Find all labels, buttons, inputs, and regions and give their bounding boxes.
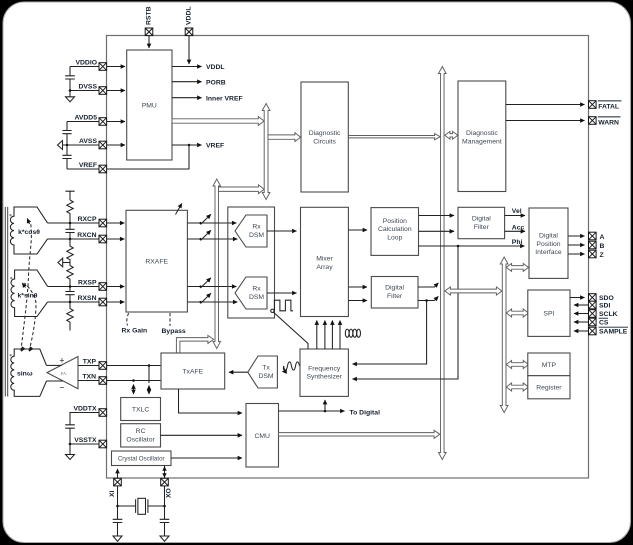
wire Phi branch down to synthesizer <box>353 246 459 379</box>
wire VSSTX <box>70 443 99 445</box>
wire TxAFE to CMU <box>179 389 243 413</box>
svg-text:Interface: Interface <box>535 249 562 256</box>
wire Acc <box>505 230 525 232</box>
variable arrow out1 <box>199 214 210 224</box>
sine squiggle synth to Tx DSM <box>282 362 299 372</box>
arrow RXCN into RXAFE <box>121 238 125 240</box>
svg-text:+: + <box>59 355 64 365</box>
bus stub bus2 to Diagnostic Management <box>445 131 458 139</box>
wire PORB out <box>172 81 202 83</box>
capacitor XO load <box>160 519 170 536</box>
svg-text:*: * <box>9 354 12 360</box>
svg-text:MTP: MTP <box>542 362 557 369</box>
wire TXP to TXLC bidirectional <box>148 366 150 384</box>
capacitor VDDTX-VSSTX <box>65 425 75 444</box>
svg-text:DSM: DSM <box>258 373 273 380</box>
svg-text:B: B <box>600 243 605 250</box>
bus stub busC to Register <box>506 383 528 391</box>
svg-text:Acc: Acc <box>512 225 525 232</box>
Register block <box>528 376 570 399</box>
pad A <box>589 232 597 240</box>
pad AVSS <box>99 141 107 149</box>
wire Mixer to Digital Filter lower 1 <box>348 286 367 288</box>
svg-text:Phi: Phi <box>512 239 523 246</box>
ground XO <box>160 536 169 541</box>
bus bidir busB to busC <box>445 287 502 295</box>
wire VREF pad <box>67 146 189 169</box>
wire B <box>568 244 585 246</box>
TxAFE block <box>161 353 225 389</box>
junction Phi branch <box>457 245 460 248</box>
wire VDDIO <box>70 66 121 68</box>
svg-text:CS: CS <box>599 320 609 327</box>
svg-text:*: * <box>10 277 13 283</box>
wire VREF out <box>172 144 202 146</box>
TXLC block <box>121 398 161 421</box>
svg-text:VDDIO: VDDIO <box>75 59 97 66</box>
resistor RX divider R4 <box>67 302 73 331</box>
svg-text:Rx: Rx <box>252 286 261 293</box>
svg-text:PORB: PORB <box>206 79 226 86</box>
wire SDO <box>570 297 585 299</box>
pad VDDIO <box>99 63 107 71</box>
wire TXP <box>78 365 161 367</box>
junction To Digital branch <box>324 410 327 413</box>
wire PCL to Digital Filter upper 1 <box>419 215 455 217</box>
wire SDI <box>574 304 589 306</box>
svg-text:Position: Position <box>383 218 407 225</box>
wires synthesizer to mixer 4x <box>317 321 340 350</box>
wire CMU To Digital <box>279 410 345 412</box>
svg-text:Filter: Filter <box>474 224 490 231</box>
wire XO bidirectional <box>162 466 166 479</box>
pad Z <box>589 250 597 258</box>
svg-text:Mixer: Mixer <box>316 256 333 263</box>
wire Mixer to PCL <box>348 229 367 231</box>
svg-text:SPI: SPI <box>543 311 554 318</box>
resistor RX divider R2 <box>67 239 73 263</box>
svg-text:Z: Z <box>600 252 604 259</box>
wire Vel <box>505 215 525 217</box>
dashed arrowheads at sin-omega coil <box>21 348 32 352</box>
label Bypass with leader <box>162 313 186 335</box>
bus arrow PMU to bus A <box>172 117 264 126</box>
wire VDDL out <box>172 66 202 68</box>
svg-text:VREF: VREF <box>206 143 224 150</box>
pad VREF <box>99 165 107 173</box>
junction VREF <box>188 144 191 147</box>
pad TXP <box>99 362 107 370</box>
bus arrow bus B to bus A <box>219 185 265 194</box>
wire DSM2 to Mixer <box>267 292 297 294</box>
ground DVSS <box>66 91 75 102</box>
capacitor AVDD5-AVSS <box>62 122 71 146</box>
svg-text:A: A <box>600 234 605 241</box>
chip boundary <box>107 36 589 479</box>
SPI block <box>528 290 570 336</box>
variable arrow out2 <box>199 230 210 240</box>
svg-text:Loop: Loop <box>387 235 402 242</box>
svg-text:VSSTX: VSSTX <box>74 437 97 444</box>
arrow RXCP into RXAFE <box>121 222 125 224</box>
svg-text:RXCP: RXCP <box>78 216 97 223</box>
wire DVSS <box>70 90 121 92</box>
pad XI <box>114 478 122 486</box>
coil glyph LC tank <box>345 329 360 337</box>
svg-text:*: * <box>9 214 12 220</box>
label Rx Gain with leader <box>122 313 148 335</box>
svg-text:Register: Register <box>536 385 562 392</box>
wire VDDTX <box>70 413 99 425</box>
wire DF lower out2 to bus2 <box>418 297 438 301</box>
coupling lines transformer core <box>5 207 7 397</box>
ground VSSTX <box>66 444 75 460</box>
wire Crystal Oscillator to CMU <box>171 457 242 459</box>
PMU U1 <box>127 50 172 160</box>
dashed coupling arrow to cos coil <box>21 219 31 351</box>
bus wire Diagnostic Circuits to bus 2 <box>349 134 441 140</box>
Digital Filter upper block <box>458 207 505 238</box>
arrow AVSS into PMU <box>121 144 125 146</box>
arrow RXSP into RXAFE <box>121 286 125 288</box>
svg-text:Oscillator: Oscillator <box>126 437 155 444</box>
arrow out4 into DSM2 <box>236 301 238 303</box>
wire XO down <box>164 486 166 519</box>
pad SCLK <box>589 310 597 318</box>
pad CS <box>589 318 597 326</box>
wire SCLK <box>574 313 589 315</box>
wire CS <box>574 321 589 323</box>
pad RSTB <box>145 28 153 36</box>
Rx DSM2 pentagon <box>235 277 267 309</box>
inductor sin-omega TX coil <box>9 349 46 396</box>
svg-text:VDDTX: VDDTX <box>73 405 97 412</box>
svg-text:XI: XI <box>109 490 116 497</box>
pad SAMPLE <box>589 327 597 335</box>
bus B vertical <box>213 179 221 349</box>
wire Phi PCL to DPI <box>419 245 525 247</box>
wire AVDD5 <box>67 121 121 123</box>
wire A <box>568 235 585 237</box>
pad RXSN <box>99 298 107 306</box>
wire DF lower out1 to bus2 <box>418 283 438 287</box>
wire RXSP <box>48 286 121 288</box>
crystal X1 <box>118 498 165 514</box>
pad RXCP <box>99 219 107 227</box>
svg-text:XO: XO <box>166 488 173 498</box>
label CS overline <box>599 318 609 327</box>
svg-text:Crystal Oscillator: Crystal Oscillator <box>118 456 165 463</box>
svg-text:k*cosθ: k*cosθ <box>18 229 40 236</box>
terminal mid tap left triangle <box>58 258 70 267</box>
svg-text:Bypass: Bypass <box>162 328 186 335</box>
svg-text:To Digital: To Digital <box>350 409 381 416</box>
wire XI up to Crystal Oscillator <box>117 469 119 478</box>
terminal bar top of RX divider <box>65 191 74 200</box>
svg-text:Synthesizer: Synthesizer <box>306 374 342 381</box>
junction AVSS <box>66 144 69 147</box>
Frequency Synthesizer block <box>300 349 348 396</box>
bus stub busC to DPI <box>506 263 528 271</box>
RC Oscillator block <box>121 424 161 447</box>
svg-text:Calculation: Calculation <box>378 226 412 233</box>
junction RXCN <box>69 238 72 241</box>
wire RXSN <box>48 301 121 303</box>
wire PCL to Digital Filter upper 2 <box>419 230 455 232</box>
Crystal Oscillator block <box>112 451 172 466</box>
svg-text:TxAFE: TxAFE <box>182 369 203 376</box>
junction DF out2 branch <box>425 299 428 302</box>
svg-text:SDI: SDI <box>599 303 610 310</box>
resistor RX divider R1 <box>67 200 73 223</box>
wire Inner VREF out <box>172 97 202 99</box>
Digital Position Interface block <box>529 208 568 278</box>
arrow DVSS into PMU <box>121 90 125 92</box>
pad TXN <box>99 377 107 385</box>
arrow out1 into DSM1 <box>235 222 237 224</box>
pad B <box>589 241 597 249</box>
wire RXAFE out1 <box>187 222 234 224</box>
pad FATAL <box>589 101 597 109</box>
svg-text:WARN: WARN <box>598 119 619 126</box>
svg-text:RXCN: RXCN <box>77 232 96 239</box>
bus stub busC to SPI <box>506 309 528 317</box>
svg-text:Array: Array <box>316 264 333 271</box>
Diagnostic Circuits block <box>301 82 348 192</box>
junction VSSTX <box>69 443 72 446</box>
pad VDDL <box>185 28 193 36</box>
svg-text:−: − <box>59 383 64 393</box>
junction TXP tank <box>148 364 151 367</box>
resistor RX divider R3 <box>67 263 73 287</box>
svg-text:Digital: Digital <box>472 215 491 222</box>
wire TXN to TXLC bidirectional <box>133 385 135 395</box>
svg-text:Frequency: Frequency <box>308 365 341 372</box>
Mixer Array block <box>301 207 349 316</box>
svg-text:CMU: CMU <box>254 433 270 440</box>
pad SDO <box>589 294 597 302</box>
clock symbol square wave <box>271 300 293 312</box>
variable arrow on RXAFE <box>176 204 182 215</box>
bus 2 vertical <box>439 67 447 460</box>
capacitor RXSP-RXSN <box>65 287 74 303</box>
wire RXAFE out4 <box>187 301 235 303</box>
wire DF branch down to synthesizer <box>353 301 427 365</box>
capacitor VDDIO-DVSS <box>65 67 75 91</box>
Digital Filter lower block <box>371 277 418 309</box>
Tx DSM pentagon <box>248 356 278 388</box>
svg-text:VDDL: VDDL <box>186 6 193 25</box>
wire FATAL <box>506 104 585 106</box>
svg-text:Rx: Rx <box>252 224 261 231</box>
svg-text:VREF: VREF <box>79 162 97 169</box>
junction RXCP <box>69 222 72 225</box>
bus arrow bus A to Diagnostic Circuits <box>268 133 301 142</box>
CMU block <box>246 404 279 468</box>
wire branch up to synthesizer <box>324 400 326 411</box>
svg-text:VDDL: VDDL <box>206 64 225 71</box>
svg-text:Tx: Tx <box>262 365 270 372</box>
svg-text:TXN: TXN <box>82 373 96 380</box>
wire DSM1 to Mixer <box>267 230 297 232</box>
RXAFE block <box>126 210 187 312</box>
label SAMPLE overline <box>599 327 628 336</box>
ground XI <box>113 536 122 541</box>
svg-text:PA: PA <box>61 371 67 376</box>
arrow out2 into DSM1 <box>236 238 238 240</box>
svg-text:Vel: Vel <box>512 208 522 215</box>
svg-text:AVDD5: AVDD5 <box>74 114 97 121</box>
bypass bus arrow TxAFE to bus B <box>176 335 213 353</box>
pad XO <box>161 478 169 486</box>
wire Tx DSM to TxAFE <box>229 371 248 373</box>
junction XO crystal <box>163 505 166 508</box>
pad VSSTX <box>99 440 107 448</box>
svg-text:AVSS: AVSS <box>79 138 97 145</box>
svg-text:Digital: Digital <box>385 285 404 292</box>
svg-text:SDO: SDO <box>599 295 614 302</box>
svg-text:RSTB: RSTB <box>145 6 152 25</box>
svg-text:Position: Position <box>536 241 560 248</box>
DSM container block <box>228 207 275 318</box>
inductor k*sin coil <box>10 270 48 317</box>
variable arrow out3 <box>199 278 210 288</box>
svg-text:DSM: DSM <box>249 232 264 239</box>
inductor k*cos coil <box>9 207 48 254</box>
junction RXSP <box>69 285 72 288</box>
svg-text:Diagnostic: Diagnostic <box>466 130 498 137</box>
svg-text:Management: Management <box>462 139 502 146</box>
bus CMU to bus2 <box>279 430 440 438</box>
Position Calculation Loop block <box>371 208 419 256</box>
bus stub busC to MTP <box>506 361 528 369</box>
wire RXAFE out2 <box>187 238 235 240</box>
wire SAMPLE <box>574 330 589 332</box>
wire coil to PA minus input <box>47 381 65 393</box>
wire coil to PA plus input <box>47 355 65 365</box>
pad SDI <box>589 301 597 309</box>
svg-text:Rx Gain: Rx Gain <box>122 328 148 335</box>
capacitor XI load <box>113 519 123 536</box>
svg-text:DVSS: DVSS <box>78 83 97 90</box>
junction DVSS <box>69 89 72 92</box>
svg-text:DSM: DSM <box>249 294 264 301</box>
wire RC Oscillator to CMU <box>161 434 243 436</box>
label FATAL overline <box>598 101 622 110</box>
svg-text:Diagnostic: Diagnostic <box>309 130 341 137</box>
pad RXSP <box>99 283 107 291</box>
wire clock to synthesizer <box>274 312 308 349</box>
svg-text:Filter: Filter <box>387 293 403 300</box>
wire AVSS <box>63 144 122 146</box>
arrow RXSN into RXAFE <box>121 301 125 303</box>
junction TXN tank <box>132 379 135 382</box>
pad WARN <box>589 117 597 125</box>
label WARN overline <box>598 117 621 126</box>
pad AVDD5 <box>99 118 107 126</box>
svg-text:PMU: PMU <box>142 103 157 110</box>
svg-text:Inner VREF: Inner VREF <box>206 95 243 102</box>
variable arrow out4 <box>199 293 210 303</box>
wire XI down <box>117 486 119 519</box>
arrow AVDD5 into PMU <box>121 121 125 123</box>
bus C vertical <box>500 257 508 413</box>
svg-text:SCLK: SCLK <box>599 311 618 318</box>
MTP block <box>528 353 570 376</box>
amplifier PA triangle <box>47 357 78 389</box>
capacitor AVSS-VREF <box>62 145 71 169</box>
junction XI crystal <box>116 505 119 508</box>
svg-text:sinω: sinω <box>17 370 33 377</box>
svg-text:Digital: Digital <box>539 232 558 239</box>
svg-text:RXSN: RXSN <box>78 295 97 302</box>
svg-text:RXSP: RXSP <box>78 280 97 287</box>
svg-text:TXLC: TXLC <box>132 407 149 414</box>
wire WARN <box>506 120 585 122</box>
bus A vertical <box>262 104 270 200</box>
svg-text:Circuits: Circuits <box>313 139 336 146</box>
wire RSTB to PMU <box>148 36 150 48</box>
arrow VDDIO into PMU <box>121 66 125 68</box>
svg-text:RXAFE: RXAFE <box>145 259 168 266</box>
wire RXCP <box>48 222 121 224</box>
arrow out3 into DSM2 <box>235 286 237 288</box>
terminal AVSS left triangle <box>58 141 63 150</box>
Rx DSM1 pentagon <box>235 215 267 247</box>
wire RXCN <box>48 238 121 240</box>
pad VDDTX <box>99 409 107 417</box>
wire Z <box>568 253 585 255</box>
arrowed segment TXP-TXLC <box>148 386 150 395</box>
capacitor RXCP-RXCN <box>65 223 74 239</box>
wire RXAFE out3 <box>187 286 234 288</box>
wire TXN <box>78 380 161 382</box>
pad RXCN <box>99 235 107 243</box>
junction RXSN <box>69 301 72 304</box>
wire Mixer to Digital Filter lower 2 <box>348 300 367 302</box>
wire VDDL pad down <box>188 36 190 64</box>
pad DVSS <box>99 87 107 95</box>
svg-text:TXP: TXP <box>83 358 97 365</box>
dashed coupling arrow to sin coil <box>22 283 36 351</box>
svg-text:FATAL: FATAL <box>598 103 619 110</box>
svg-text:SAMPLE: SAMPLE <box>599 329 628 336</box>
Diagnostic Management block <box>458 81 506 192</box>
svg-text:RC: RC <box>136 428 146 435</box>
